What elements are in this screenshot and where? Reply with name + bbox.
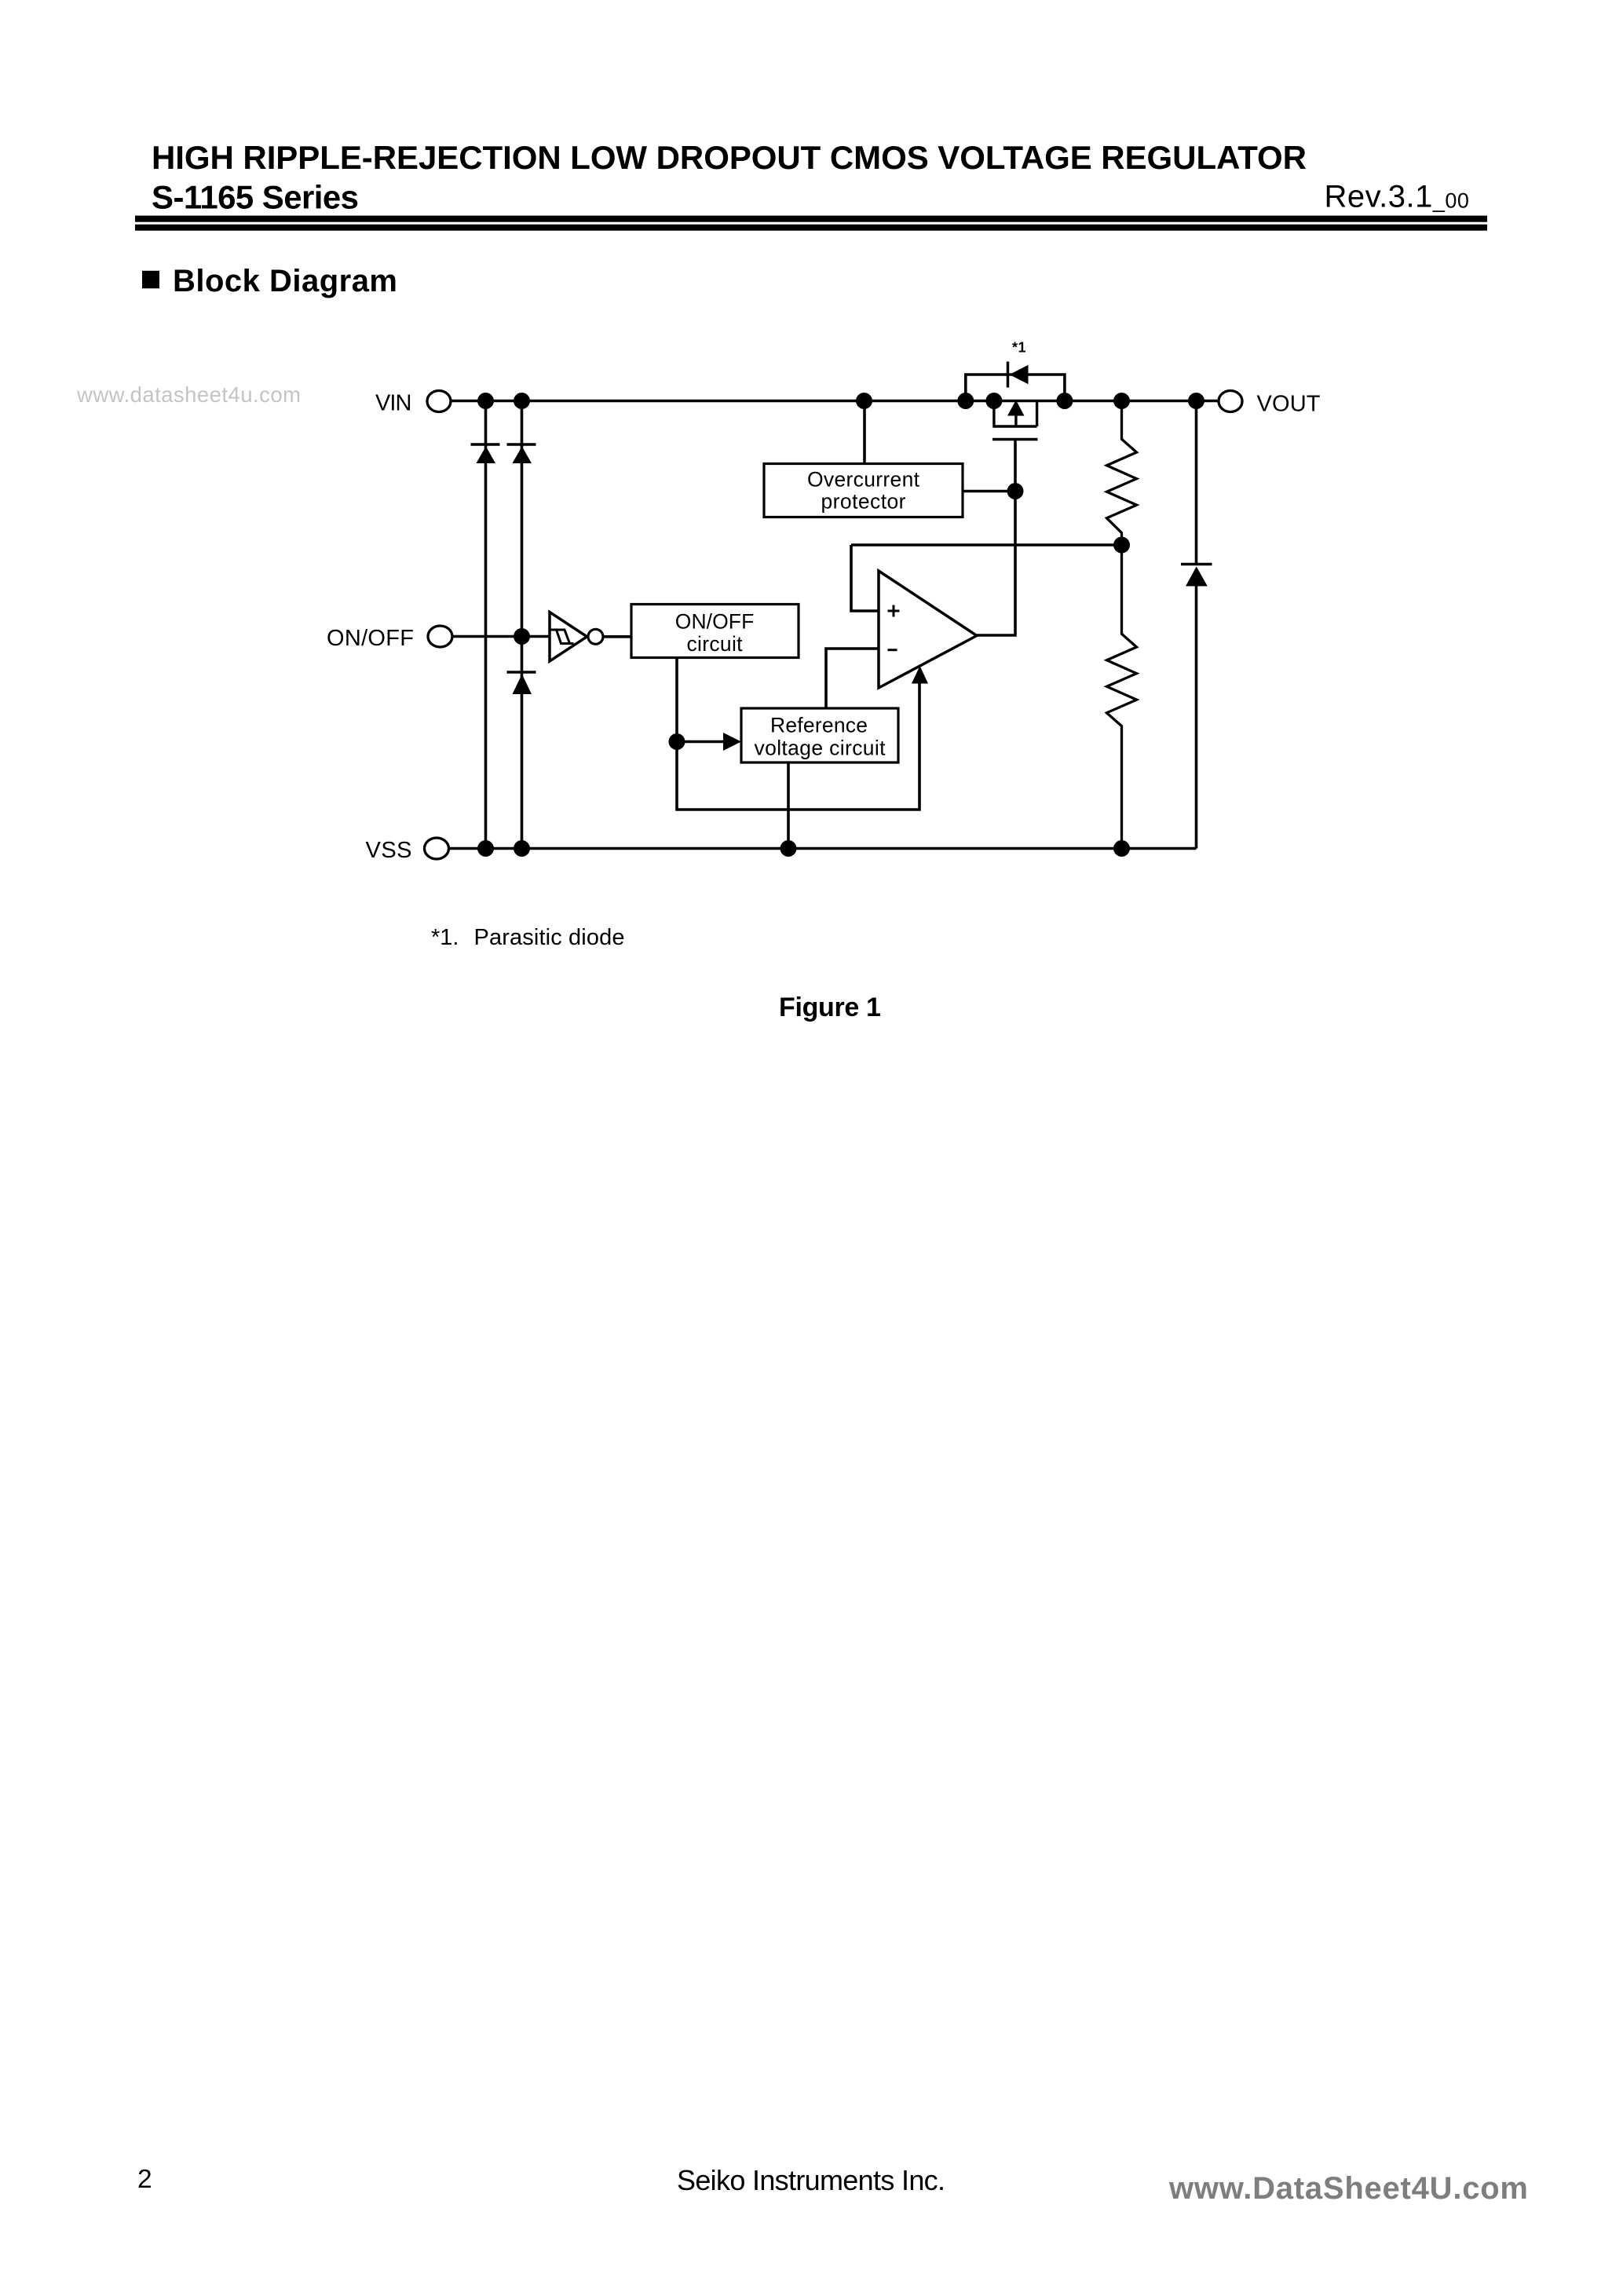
node junction reference-VSS — [780, 840, 797, 857]
wire VIN bus (top rail y=510.5) — [451, 400, 1219, 403]
wire bias loop to op-amp lower arrow — [677, 666, 928, 810]
wire ON/OFF input line — [453, 635, 550, 638]
svg-text:HIGH RIPPLE-REJECTION LOW DROP: HIGH RIPPLE-REJECTION LOW DROPOUT CMOS V… — [152, 139, 1307, 176]
svg-text:Rev.3.1_00: Rev.3.1_00 — [1325, 180, 1470, 214]
svg-text:voltage circuit: voltage circuit — [755, 737, 886, 760]
wire column B vertical (x=664.5 VIN to VSS) — [521, 401, 524, 849]
block ON/OFF circuit box — [631, 605, 799, 658]
svg-text:www.datasheet4u.com: www.datasheet4u.com — [76, 382, 301, 407]
wire VOUT branch to VSS corner — [1195, 587, 1198, 849]
node junction divider bottom-VSS — [1113, 840, 1130, 857]
schmitt inverter U1 triangle — [550, 612, 587, 662]
wire OCP top lead to VIN bus — [863, 401, 866, 464]
node junction VSS-columnB — [514, 840, 530, 857]
wire column A vertical (x=618.5 VIN to VSS) — [484, 401, 488, 849]
node junction M1 drain-VOUT — [1056, 393, 1073, 409]
transistor M1 gate bar — [992, 438, 1038, 441]
node junction gate-OCP — [1007, 483, 1024, 499]
wire parasitic diode loop — [966, 375, 1065, 401]
wire ON/OFF box bottom lead — [675, 658, 678, 742]
wire op-amp output to gate — [977, 441, 1015, 635]
wire OCP output to gate line — [963, 490, 1015, 493]
node junction diode loop left — [957, 393, 974, 409]
diode D2 (ESD diode, column B upper) — [507, 444, 536, 463]
svg-text:ON/OFF: ON/OFF — [327, 626, 414, 651]
block Overcurrent protector box — [764, 464, 963, 517]
svg-text:Parasitic diode: Parasitic diode — [474, 925, 625, 950]
svg-text:S-1165 Series: S-1165 Series — [152, 179, 359, 216]
diode D3 (ESD diode, column B lower) — [507, 672, 536, 694]
svg-text:2: 2 — [137, 2165, 152, 2194]
wire arrow into reference circuit — [677, 733, 741, 751]
terminal VOUT — [1219, 391, 1321, 417]
node junction divider tap — [1113, 537, 1130, 554]
node junction M1 source-VIN — [985, 393, 1002, 409]
node junction VIN-columnA — [477, 393, 494, 409]
op-amp A1 plus sign — [888, 605, 900, 617]
svg-text:*1: *1 — [1012, 340, 1026, 356]
block Reference voltage circuit box — [741, 708, 898, 762]
section bullet square — [142, 271, 159, 289]
schmitt inverter U1 hysteresis glyph — [550, 630, 574, 644]
node junction bias node — [669, 733, 685, 750]
wire inverter output to ON/OFF circuit box — [604, 635, 632, 638]
resistor R1 — [1107, 401, 1137, 546]
node junction OCP-VIN — [856, 393, 872, 409]
diode D5 parasitic diode triangle — [1010, 365, 1029, 384]
terminal ON/OFF — [327, 626, 452, 651]
svg-text:Figure 1: Figure 1 — [779, 993, 881, 1022]
diode D4 output diode triangle — [1186, 567, 1208, 587]
svg-text:VSS: VSS — [366, 838, 412, 863]
svg-text:protector: protector — [821, 490, 906, 514]
wire plus input loop — [851, 545, 879, 611]
diode D1 (ESD diode, column A) — [471, 444, 500, 463]
svg-text:circuit: circuit — [687, 632, 744, 656]
svg-text:www.DataSheet4U.com: www.DataSheet4U.com — [1168, 2171, 1528, 2206]
header double rule lower — [135, 225, 1487, 231]
resistor R2 — [1107, 545, 1137, 849]
diode D4 output diode cathode bar — [1181, 563, 1212, 566]
svg-text:Reference: Reference — [770, 714, 868, 737]
wire reference box top lead to minus input — [826, 649, 879, 708]
wire VOUT branch down — [1195, 401, 1198, 564]
node junction VIN-columnB — [514, 393, 530, 409]
wire feedback line to divider tap — [851, 543, 1122, 547]
transistor M1 source strap — [992, 401, 1036, 427]
svg-text:Seiko Instruments Inc.: Seiko Instruments Inc. — [677, 2164, 945, 2196]
node junction VSS-columnA — [477, 840, 494, 857]
diode D5 parasitic diode cathode bar — [1007, 362, 1010, 388]
svg-text:VOUT: VOUT — [1257, 392, 1321, 417]
node junction ON/OFF-columnB — [514, 628, 530, 645]
wire VSS bus (bottom rail y=1080.5) — [449, 847, 1197, 850]
terminal VIN — [375, 391, 451, 416]
svg-text:Block Diagram: Block Diagram — [173, 264, 397, 298]
op-amp A1 triangle — [879, 571, 977, 688]
svg-text:*1.: *1. — [431, 925, 459, 950]
wire reference box bottom lead to VSS — [787, 762, 790, 849]
svg-text:ON/OFF: ON/OFF — [675, 610, 755, 634]
svg-text:VIN: VIN — [375, 391, 412, 416]
terminal VSS — [366, 838, 449, 863]
node junction divider top — [1113, 393, 1130, 409]
transistor M1 body arrow — [1007, 400, 1025, 427]
header double rule upper — [135, 216, 1487, 222]
schmitt inverter U1 output bubble — [588, 629, 603, 644]
op-amp A1 minus sign — [888, 649, 897, 651]
svg-text:Overcurrent: Overcurrent — [807, 468, 920, 492]
node junction VOUT branch — [1188, 393, 1204, 409]
